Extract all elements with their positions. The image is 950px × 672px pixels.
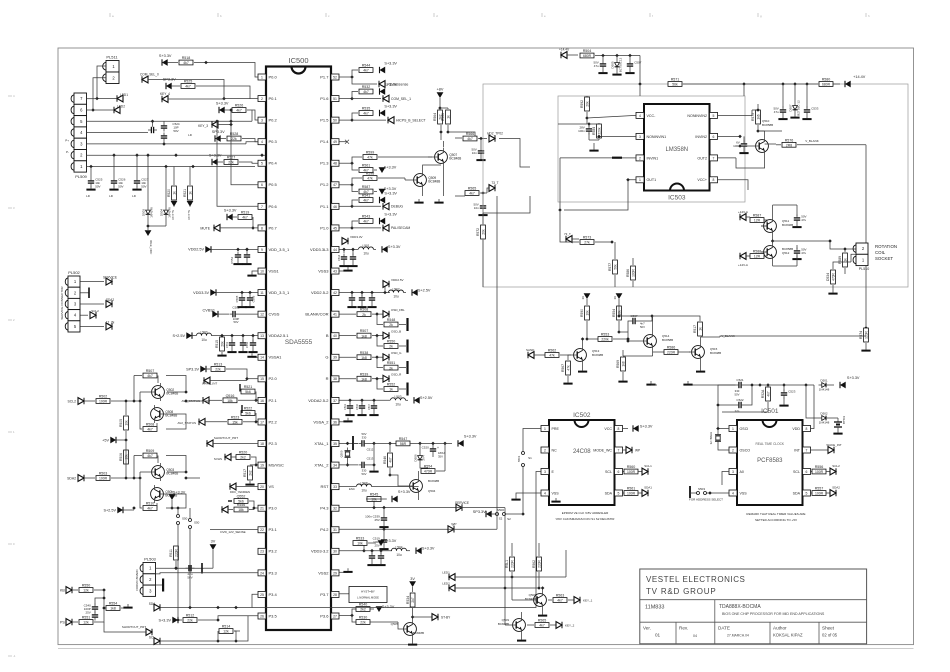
resistor R567v bbox=[561, 355, 587, 385]
capacitor C523 bbox=[722, 383, 796, 412]
svg-text:C521: C521 bbox=[736, 378, 744, 382]
svg-text:L508: L508 bbox=[360, 481, 367, 485]
svg-text:42: 42 bbox=[333, 291, 337, 295]
svg-text:R569: R569 bbox=[616, 360, 620, 368]
inductor L503 pin37 bbox=[391, 395, 433, 406]
svg-text:24C08: 24C08 bbox=[573, 449, 591, 455]
net V_BLANK label bbox=[701, 334, 866, 338]
resistor R563 key1 bbox=[548, 594, 593, 604]
capacitor C539 bbox=[365, 508, 388, 528]
resistor R532 pin51 row bbox=[339, 83, 398, 101]
wire PL503-2 to pin24 bbox=[156, 573, 259, 574]
svg-text:VCC+: VCC+ bbox=[697, 178, 707, 182]
transistor Q513 bbox=[571, 337, 603, 368]
net KEY_3 bbox=[198, 121, 231, 128]
wire PL509-7 bbox=[87, 98, 98, 100]
net DEBUG bbox=[383, 203, 403, 210]
net +14V-A q512 bbox=[738, 250, 767, 267]
connector PL503 bbox=[135, 557, 157, 597]
svg-text:4k7: 4k7 bbox=[185, 85, 191, 89]
net KEY_4 bbox=[160, 92, 224, 102]
svg-text:5: 5 bbox=[618, 491, 620, 495]
svg-text:R576: R576 bbox=[785, 138, 794, 142]
wire PL509-5 bbox=[87, 110, 253, 123]
svg-text:R562: R562 bbox=[532, 560, 536, 568]
svg-text:1: 1 bbox=[544, 427, 546, 431]
svg-text:50V: 50V bbox=[362, 472, 367, 476]
net S+3.3V ic502-8 bbox=[623, 425, 653, 432]
svg-text:R584: R584 bbox=[592, 127, 596, 135]
connector PL502 service bbox=[60, 270, 81, 332]
svg-text:C533: C533 bbox=[811, 107, 819, 111]
svg-text:50V: 50V bbox=[735, 392, 740, 396]
wire c537 top rail bbox=[617, 305, 652, 318]
svg-text:18k: 18k bbox=[227, 399, 233, 403]
svg-text:SOCKET: SOCKET bbox=[875, 256, 893, 261]
svg-text:1N4148: 1N4148 bbox=[150, 207, 154, 218]
wire enclosure box around deflection circuit bbox=[483, 84, 908, 287]
svg-text:52: 52 bbox=[333, 75, 337, 79]
svg-text:SHORTCUT_PRT: SHORTCUT_PRT bbox=[122, 625, 146, 629]
wire lm358 area net1 bbox=[558, 124, 587, 242]
svg-text:OSD_FBL: OSD_FBL bbox=[391, 308, 405, 312]
wire pin31 service long bbox=[448, 528, 497, 530]
net IDLE_OFF arrow down bbox=[145, 219, 166, 255]
crystal Q500 bbox=[339, 442, 358, 467]
svg-text:P0.3: P0.3 bbox=[269, 139, 278, 144]
svg-text:50V: 50V bbox=[95, 184, 100, 188]
svg-text:NONINVIN1: NONINVIN1 bbox=[647, 135, 667, 139]
svg-text:4: 4 bbox=[639, 114, 641, 118]
net DVD_12V pin21 bbox=[222, 503, 254, 513]
svg-text:S+3.3V: S+3.3V bbox=[847, 376, 860, 380]
svg-text:B: B bbox=[326, 333, 329, 338]
caps pin37 group bbox=[339, 399, 390, 417]
svg-text:R507: R507 bbox=[146, 369, 155, 373]
capacitor C519 bbox=[373, 529, 389, 550]
svg-text:R588: R588 bbox=[753, 250, 762, 254]
svg-text:P3.3: P3.3 bbox=[269, 570, 278, 575]
svg-text:26: 26 bbox=[260, 614, 264, 618]
svg-text:R561: R561 bbox=[362, 164, 371, 168]
svg-text:220k: 220k bbox=[597, 127, 601, 134]
capacitor C501 bbox=[156, 563, 205, 579]
svg-text:SP3.3V: SP3.3V bbox=[186, 367, 199, 371]
hyst box pin28 bbox=[339, 587, 387, 603]
svg-text:P2.2: P2.2 bbox=[269, 419, 278, 424]
svg-text:50V: 50V bbox=[141, 184, 146, 188]
svg-text:28: 28 bbox=[333, 593, 337, 597]
svg-text:1k: 1k bbox=[698, 327, 702, 331]
svg-text:27k: 27k bbox=[584, 241, 590, 245]
svg-text:R553: R553 bbox=[601, 333, 610, 337]
svg-text:220k: 220k bbox=[601, 338, 609, 342]
svg-text:1k8: 1k8 bbox=[361, 334, 367, 338]
svg-text:S500: S500 bbox=[497, 508, 504, 512]
resistor R533 pin30 bbox=[339, 537, 397, 553]
svg-text:04: 04 bbox=[693, 634, 697, 638]
svg-text:R52A: R52A bbox=[761, 389, 765, 398]
inductor L501 pin44 bbox=[359, 244, 401, 255]
svg-text:DEBUG: DEBUG bbox=[391, 205, 403, 209]
svg-text:4k7: 4k7 bbox=[363, 220, 369, 224]
diode D503 bbox=[142, 153, 154, 218]
wire PL509-1 bbox=[87, 165, 256, 169]
svg-text:470R: 470R bbox=[831, 272, 835, 280]
svg-text:VS: VS bbox=[269, 484, 275, 489]
svg-text:P4.3: P4.3 bbox=[320, 506, 329, 511]
svg-text:100R: 100R bbox=[99, 477, 108, 481]
svg-text:22k: 22k bbox=[360, 621, 366, 625]
svg-text:1k: 1k bbox=[843, 258, 847, 262]
wire PL502-2 stub bbox=[81, 288, 90, 299]
svg-text:50V: 50V bbox=[362, 432, 367, 436]
svg-text:P1.3: P1.3 bbox=[320, 161, 329, 166]
wire rail drop bbox=[639, 56, 641, 85]
net SHORTCUT_PRT pin18 bbox=[207, 436, 258, 447]
svg-text:R507: R507 bbox=[360, 329, 369, 333]
svg-text:R580: R580 bbox=[822, 78, 831, 82]
svg-text:8: 8 bbox=[261, 226, 263, 230]
svg-text:220R: 220R bbox=[537, 559, 541, 567]
svg-text:2k: 2k bbox=[389, 323, 393, 327]
ground c52x left bbox=[646, 381, 735, 386]
svg-text:SCL: SCL bbox=[605, 470, 612, 474]
inductor L504 pin30 bbox=[364, 546, 435, 557]
note ic502 bbox=[556, 511, 616, 521]
svg-text:PL502: PL502 bbox=[68, 270, 80, 275]
svg-text:+14V-A: +14V-A bbox=[738, 263, 748, 267]
svg-text:18: 18 bbox=[260, 442, 264, 446]
svg-text:TDA888X-BOCMA: TDA888X-BOCMA bbox=[719, 604, 761, 610]
svg-text:7: 7 bbox=[261, 205, 263, 209]
svg-text:P2.1: P2.1 bbox=[269, 398, 278, 403]
capacitor C532 cluster bbox=[773, 84, 787, 120]
svg-text:6: 6 bbox=[713, 135, 715, 139]
svg-text:50V: 50V bbox=[118, 184, 123, 188]
svg-text:R515: R515 bbox=[215, 340, 219, 348]
svg-text:R525: R525 bbox=[184, 80, 193, 84]
resistor R590v bbox=[580, 306, 589, 341]
svg-text:R532: R532 bbox=[362, 85, 371, 89]
svg-text:S+3.3V: S+3.3V bbox=[216, 102, 229, 106]
svg-text:5k6: 5k6 bbox=[245, 390, 251, 394]
svg-text:S+3.3V: S+3.3V bbox=[187, 210, 191, 220]
wire cluster to pin16 bbox=[184, 399, 210, 403]
net AV1_STATUS pin16 bbox=[181, 384, 258, 404]
svg-text:BC858B: BC858B bbox=[762, 123, 773, 127]
svg-text:C522: C522 bbox=[736, 398, 744, 402]
transistor Q515 bbox=[689, 337, 721, 373]
svg-text:2k: 2k bbox=[389, 345, 393, 349]
svg-text:3V: 3V bbox=[211, 540, 216, 544]
resistor R526 row pin3 bbox=[216, 102, 258, 120]
wire zener rail bbox=[743, 84, 745, 96]
svg-text:45: 45 bbox=[333, 226, 337, 230]
svg-text:CVBS1: CVBS1 bbox=[203, 308, 215, 312]
resistor R509 bbox=[143, 449, 157, 458]
net WP pin31 bbox=[339, 523, 457, 533]
wire PL509-4 bbox=[87, 132, 149, 134]
svg-text:1k8: 1k8 bbox=[361, 356, 367, 360]
svg-text:C502: C502 bbox=[232, 306, 240, 310]
net SCL1 bottom bbox=[149, 616, 248, 645]
svg-text:220R: 220R bbox=[510, 559, 514, 567]
svg-text:VSSA_2: VSSA_2 bbox=[313, 419, 329, 424]
svg-text:2k2: 2k2 bbox=[248, 470, 252, 475]
wire cluster to pin21 bbox=[184, 476, 200, 480]
svg-text:BIOS ONE CHIP PROCESSOR FOR MI: BIOS ONE CHIP PROCESSOR FOR MID END APPL… bbox=[722, 612, 825, 616]
svg-text:4k7: 4k7 bbox=[388, 457, 392, 462]
svg-text:2V4: 2V4 bbox=[422, 455, 426, 461]
LED LED1 arrow bbox=[95, 93, 128, 102]
svg-text:100R: 100R bbox=[815, 492, 824, 496]
net SCL2 in bbox=[68, 376, 142, 430]
svg-text:XTAL_2: XTAL_2 bbox=[314, 462, 329, 467]
svg-text:30: 30 bbox=[333, 550, 337, 554]
svg-text:VDDA2.5.1: VDDA2.5.1 bbox=[269, 333, 290, 338]
svg-text:SDA2: SDA2 bbox=[832, 486, 840, 490]
crystal Y501 32.768kHz bbox=[709, 429, 729, 451]
svg-text:VSS: VSS bbox=[552, 491, 560, 495]
svg-text:01: 01 bbox=[655, 633, 661, 638]
svg-text:+14.4V: +14.4V bbox=[559, 48, 570, 52]
capacitor C516 bbox=[578, 122, 592, 140]
svg-text:SP3.3V: SP3.3V bbox=[163, 78, 176, 82]
svg-text:INT: INT bbox=[794, 448, 801, 452]
svg-text:4k7: 4k7 bbox=[147, 428, 153, 432]
svg-text:1: 1 bbox=[732, 427, 734, 431]
resistor R552c bbox=[377, 379, 408, 396]
svg-text:P-: P- bbox=[66, 150, 69, 154]
svg-text:SCL1: SCL1 bbox=[644, 464, 652, 468]
svg-text:56R: 56R bbox=[400, 442, 407, 446]
svg-text:R556: R556 bbox=[815, 465, 824, 469]
resistor R572 on box edge bbox=[476, 213, 485, 250]
resistor R545 pin32 bbox=[339, 493, 456, 510]
wire pin32 long bbox=[456, 507, 505, 509]
wire pin7 right bbox=[718, 157, 737, 159]
capacitor C535 bbox=[773, 205, 807, 228]
svg-text:R587: R587 bbox=[362, 185, 371, 189]
svg-text:10u: 10u bbox=[363, 252, 369, 256]
wire sda1 long bbox=[252, 480, 536, 608]
svg-text:PL509: PL509 bbox=[75, 174, 87, 179]
jumper S504 bbox=[176, 506, 187, 545]
svg-text:10u: 10u bbox=[396, 553, 402, 557]
svg-text:1k: 1k bbox=[172, 191, 176, 195]
svg-text:220R: 220R bbox=[667, 351, 676, 355]
capacitor C536 bbox=[773, 245, 807, 266]
svg-text:8: 8 bbox=[713, 178, 715, 182]
svg-text:13: 13 bbox=[260, 334, 264, 338]
svg-text:L500: L500 bbox=[200, 330, 207, 334]
svg-text:R547: R547 bbox=[399, 437, 408, 441]
svg-text:FORM F.BOARD: FORM F.BOARD bbox=[135, 569, 139, 590]
ground Q505 bbox=[408, 641, 417, 646]
svg-text:R573: R573 bbox=[583, 236, 592, 240]
svg-text:SP3.3V: SP3.3V bbox=[212, 130, 225, 134]
capacitor C526 bbox=[109, 155, 126, 198]
svg-text:D534: D534 bbox=[826, 273, 830, 281]
net COM_SEL_0 bbox=[140, 73, 224, 99]
resistor R508 bbox=[143, 423, 157, 432]
svg-text:31: 31 bbox=[333, 528, 337, 532]
wire PL509-6 bbox=[87, 109, 94, 111]
svg-text:10n: 10n bbox=[474, 206, 479, 210]
svg-text:680R: 680R bbox=[583, 54, 592, 58]
net COM_SEL_1 bbox=[383, 95, 411, 102]
resistor R548 bbox=[377, 314, 408, 331]
svg-text:3: 3 bbox=[544, 470, 546, 474]
jumper S503 address bbox=[689, 486, 729, 502]
svg-text:R598: R598 bbox=[366, 172, 375, 176]
resistor R514 bbox=[219, 625, 240, 634]
svg-text:Rev.: Rev. bbox=[679, 626, 688, 631]
svg-text:47k: 47k bbox=[367, 177, 373, 181]
svg-text:LED2: LED2 bbox=[117, 105, 125, 109]
svg-text:4k7: 4k7 bbox=[766, 391, 770, 396]
svg-text:R587: R587 bbox=[753, 214, 762, 218]
svg-text:PCF8583: PCF8583 bbox=[757, 458, 783, 464]
resistor R564 bbox=[433, 108, 442, 124]
svg-text:P1.5: P1.5 bbox=[320, 118, 329, 123]
net VDD2.5V pin42 bbox=[383, 278, 431, 299]
svg-text:BC848B: BC848B bbox=[428, 180, 440, 184]
svg-text:R538: R538 bbox=[360, 351, 369, 355]
svg-text:2k2: 2k2 bbox=[360, 608, 366, 612]
net +8V rail bbox=[437, 88, 448, 110]
svg-text:24: 24 bbox=[260, 571, 264, 575]
svg-text:L504: L504 bbox=[395, 546, 402, 550]
svg-text:RST: RST bbox=[321, 484, 330, 489]
svg-text:KEY_2: KEY_2 bbox=[565, 623, 575, 627]
svg-text:P1.7: P1.7 bbox=[320, 74, 329, 79]
svg-text:P0.1: P0.1 bbox=[269, 96, 278, 101]
svg-text:L501: L501 bbox=[362, 244, 369, 248]
svg-text:P3.7: P3.7 bbox=[320, 592, 329, 597]
capacitor C503 rail bbox=[593, 56, 607, 75]
svg-text:S+3.3V: S+3.3V bbox=[422, 547, 435, 551]
svg-text:BC858B: BC858B bbox=[662, 338, 673, 342]
ground pin43 bbox=[339, 267, 353, 272]
svg-text:R508: R508 bbox=[360, 308, 369, 312]
svg-text:PL510: PL510 bbox=[859, 267, 869, 271]
svg-text:7: 7 bbox=[806, 448, 808, 452]
svg-text:R521: R521 bbox=[244, 385, 253, 389]
svg-text:R577: R577 bbox=[608, 263, 612, 271]
svg-text:Ver.: Ver. bbox=[643, 626, 651, 631]
svg-text:+5V: +5V bbox=[102, 438, 109, 442]
svg-text:OSD_R: OSD_R bbox=[391, 373, 402, 377]
svg-text:VCC-: VCC- bbox=[647, 114, 657, 118]
svg-text:100R: 100R bbox=[631, 268, 635, 276]
resistor R547 bbox=[374, 437, 422, 446]
resistor R599 pin48 row bbox=[339, 151, 432, 165]
net CVBS1 pin12 bbox=[203, 306, 258, 325]
svg-text:BT501: BT501 bbox=[842, 415, 846, 424]
resistor R508b pin41 bbox=[339, 308, 383, 317]
wire bus x231 to pin6 bbox=[229, 108, 258, 185]
svg-text:EPROM VE CLK %5V ADRESLER: EPROM VE CLK %5V ADRESLER bbox=[562, 511, 609, 515]
svg-text:25V: 25V bbox=[374, 518, 379, 522]
svg-text:G: G bbox=[325, 355, 328, 360]
svg-text:43: 43 bbox=[333, 269, 337, 273]
svg-text:INVIN1: INVIN1 bbox=[647, 156, 659, 160]
svg-text:LM358N: LM358N bbox=[665, 147, 688, 153]
resistor R507 bbox=[143, 369, 157, 378]
wire ic502 pin1 left bbox=[523, 429, 541, 451]
svg-text:R544: R544 bbox=[362, 64, 371, 68]
svg-text:S+3.3V: S+3.3V bbox=[384, 104, 397, 108]
resistor R554c bbox=[421, 442, 447, 474]
IC502 pins bbox=[541, 426, 623, 497]
svg-text:R540: R540 bbox=[359, 603, 368, 607]
svg-text:WAKE_INT: WAKE_INT bbox=[826, 443, 841, 447]
svg-text:P0.2: P0.2 bbox=[269, 118, 278, 123]
wire jumper rail down2 bbox=[188, 560, 192, 609]
transistor Q503 bbox=[140, 463, 178, 481]
svg-text:PL503: PL503 bbox=[144, 557, 156, 562]
svg-text:R: R bbox=[326, 376, 329, 381]
svg-text:R592: R592 bbox=[580, 100, 584, 108]
svg-text:50V: 50V bbox=[173, 129, 178, 133]
svg-text:P3.1: P3.1 bbox=[269, 527, 278, 532]
resistor R525 row pin2 bbox=[163, 78, 258, 101]
svg-text:VDD3.3V: VDD3.3V bbox=[193, 291, 209, 295]
net PS arrow bbox=[60, 606, 106, 625]
svg-text:R533: R533 bbox=[356, 537, 365, 541]
capacitor C530 bbox=[733, 136, 748, 154]
diode D502 bbox=[806, 385, 838, 424]
svg-text:BC848B: BC848B bbox=[710, 351, 721, 355]
svg-text:BC846B: BC846B bbox=[782, 223, 793, 227]
svg-text:R520: R520 bbox=[239, 451, 248, 455]
svg-text:R562: R562 bbox=[548, 349, 557, 353]
resistor R576 blank bbox=[756, 129, 866, 147]
svg-text:C511: C511 bbox=[343, 403, 347, 410]
transistor Q502 bbox=[140, 383, 178, 401]
net OSD_B bbox=[383, 330, 401, 340]
resistor R560 scl1 bbox=[623, 464, 653, 475]
svg-text:R5L1: R5L1 bbox=[505, 560, 509, 568]
svg-text:MUTE: MUTE bbox=[200, 226, 210, 230]
svg-text:20k: 20k bbox=[220, 341, 224, 347]
LED LED2 arrow bbox=[91, 105, 125, 114]
svg-text:50V: 50V bbox=[640, 325, 645, 329]
svg-text:15k: 15k bbox=[232, 421, 238, 425]
transistor Q511 bbox=[761, 205, 793, 243]
svg-text:KEY_3: KEY_3 bbox=[198, 124, 208, 128]
svg-text:10: 10 bbox=[260, 269, 264, 273]
svg-text:14: 14 bbox=[260, 356, 264, 360]
svg-text:R511: R511 bbox=[169, 549, 173, 557]
svg-text:5k6: 5k6 bbox=[245, 412, 251, 416]
svg-text:S+3.3V: S+3.3V bbox=[159, 54, 172, 58]
svg-text:4k7: 4k7 bbox=[363, 199, 369, 203]
svg-text:20: 20 bbox=[260, 485, 264, 489]
svg-text:SDA: SDA bbox=[605, 491, 613, 495]
resistor R556 scl2 bbox=[811, 464, 841, 475]
svg-text:WP: WP bbox=[635, 448, 640, 452]
net S+3.3V p32 bbox=[382, 490, 411, 502]
svg-text:50V: 50V bbox=[234, 320, 239, 324]
net +5V rail bbox=[102, 431, 128, 449]
svg-text:S2: S2 bbox=[499, 517, 503, 521]
net 12_IN out bbox=[81, 320, 115, 329]
ground Q507 bbox=[414, 199, 443, 204]
svg-text:32: 32 bbox=[333, 507, 337, 511]
